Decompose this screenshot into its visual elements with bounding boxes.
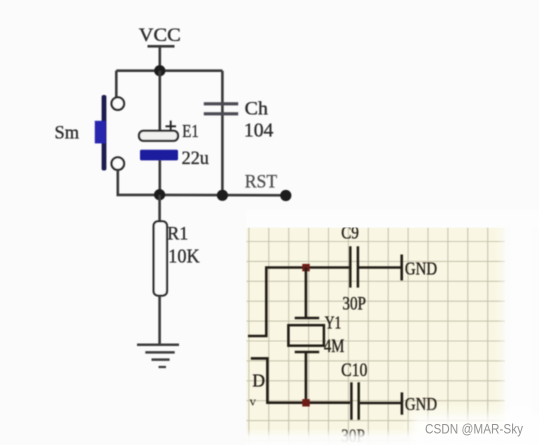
watermark glow (412, 414, 539, 445)
capacitor C10 right plate (357, 382, 360, 420)
capacitor C10 left plate (350, 382, 353, 420)
crystal Y1 top plate (295, 317, 320, 320)
capacitor C9 right plate (357, 246, 360, 287)
svg-text:Y1: Y1 (325, 312, 342, 332)
svg-text:RST: RST (245, 171, 278, 192)
grid paper panel background (247, 228, 506, 445)
grid horizontal lines (247, 242, 506, 441)
svg-text:Ch: Ch (245, 98, 269, 119)
wire E1 to RST rail (159, 160, 162, 195)
wire junction to crystal (305, 268, 308, 318)
GND bar lower (401, 392, 404, 414)
svg-text:R1: R1 (167, 224, 188, 245)
capacitor C9 left plate (349, 246, 352, 287)
capacitor E1 top plate (139, 131, 178, 141)
node junction RST left (154, 189, 165, 200)
svg-text:10K: 10K (168, 246, 199, 267)
capacitor E1 bottom plate (140, 150, 178, 161)
wire rail to switch top terminal (115, 71, 118, 98)
svg-text:4M: 4M (324, 336, 345, 357)
capacitor Ch top plate (204, 102, 238, 105)
svg-text:v: v (250, 394, 257, 409)
white fade right of grid (504, 220, 539, 445)
svg-text:E1: E1 (182, 121, 199, 141)
switch Sm button actuator (95, 121, 106, 144)
wire crystal to bottom rail (305, 352, 308, 403)
crystal Y1 body (288, 325, 324, 346)
GND bar upper (400, 255, 403, 281)
svg-text:CSDN @MAR-Sky: CSDN @MAR-Sky (425, 421, 523, 437)
grid vertical lines (249, 228, 488, 445)
node RST end dot (280, 190, 291, 201)
wire XTAL1 branch (248, 268, 349, 337)
svg-text:VCC: VCC (139, 26, 181, 46)
capacitor E1 polarity plus sign (166, 125, 177, 127)
svg-text:GND: GND (405, 394, 437, 414)
white mask clipping top of C9 label (246, 210, 539, 228)
bottom white fade over grid (246, 429, 539, 445)
capacitor Ch bottom plate (204, 112, 238, 115)
ground symbol (137, 345, 179, 367)
VCC power bar (148, 45, 175, 48)
svg-text:104: 104 (244, 121, 274, 142)
svg-text:22u: 22u (182, 148, 210, 169)
switch Sm top terminal (112, 97, 125, 110)
wire C9 right plate to GND (359, 266, 401, 269)
wire RST rail to resistor R1 (158, 195, 161, 222)
svg-text:GND: GND (405, 258, 437, 278)
crystal Y1 bottom plate (295, 351, 320, 354)
wire RST rail (159, 194, 286, 197)
svg-text:C10: C10 (341, 360, 367, 381)
wire rail to capacitor E1 (159, 71, 162, 131)
svg-text:D: D (252, 370, 265, 390)
node junction XTAL2 (302, 399, 309, 406)
wire XTAL2 branch (251, 358, 350, 402)
wire switch bottom to RST rail (118, 170, 159, 195)
switch Sm lever bar (102, 95, 107, 171)
wire top rail (116, 69, 222, 72)
wire C10 right plate to GND (360, 402, 401, 405)
node junction RST middle (217, 190, 228, 201)
resistor R1 body (154, 221, 167, 295)
wire R1 to ground (158, 296, 161, 345)
wire VCC bar to top rail (159, 47, 162, 71)
svg-text:Sm: Sm (55, 124, 80, 144)
node junction VCC rail (154, 65, 165, 76)
svg-text:30P: 30P (342, 294, 366, 315)
node junction XTAL1 (302, 264, 309, 271)
switch Sm bottom terminal (112, 157, 125, 170)
wire rail through capacitor Ch to RST rail (221, 71, 224, 195)
